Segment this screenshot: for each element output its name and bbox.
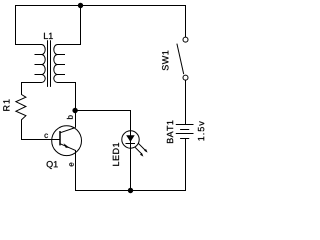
label c (44, 134, 47, 138)
LED1 body circle (122, 131, 139, 148)
switch SW1 lever (177, 44, 184, 75)
L1 right winding junction ticks (58, 55, 66, 75)
LED1 anode triangle (126, 135, 135, 142)
wire switch SW1 to battery top plate (185, 80, 187, 124)
wire node to LED1: horizontal then vertical through LED to bottom (76, 111, 131, 191)
battery BAT1 plate long top (176, 124, 194, 126)
label R1 (3, 99, 9, 110)
transistor Q1 emitter arrow (64, 143, 70, 148)
label Q1 (47, 161, 58, 169)
battery BAT1 plate short bottom (180, 138, 189, 140)
label SW1 (162, 51, 168, 71)
battery BAT1 plate long (176, 133, 194, 135)
label b (67, 115, 73, 119)
inductor L1 right winding, bottom lead, wire down to Q1 collector (54, 45, 76, 128)
L1 left winding junction ticks (35, 55, 42, 75)
transistor Q1 collector line (60, 128, 76, 133)
transistor Q1 body circle (52, 126, 82, 156)
LED1 light ray lower (135, 147, 143, 155)
LED1 light ray upper (138, 143, 146, 151)
wire top loop: L1 primary top lead, left vertical, top horizontal, switch top lead (16, 6, 186, 45)
label BAT1 (167, 121, 173, 144)
transformer core lines (48, 40, 51, 87)
transistor Q1 base bar (59, 131, 61, 145)
LED1 ray arrowhead upper (144, 149, 147, 153)
inductor L1 left winding with R1 chain: winding, bottom lead, resistor R1 zigzag, lead to Q1 base (16, 45, 60, 140)
wire from top node down to L1 secondary top lead (58, 6, 81, 45)
label e (69, 163, 73, 167)
label LED1 (113, 143, 119, 166)
LED1 cathode bar (126, 143, 136, 145)
switch SW1 contact circle bottom (183, 75, 188, 80)
junction node top (78, 3, 83, 8)
battery BAT1 plate short (180, 129, 189, 131)
switch SW1 contact circle top (183, 37, 188, 42)
label L1 (44, 33, 53, 39)
transistor Q1 emitter line, emitter wire, bottom wire, battery bottom lead (60, 139, 186, 191)
LED1 ray arrowhead lower (140, 153, 143, 157)
junction node at Q1 collector / LED (72, 108, 77, 113)
label 1.5v (198, 121, 204, 140)
junction node bottom LED (128, 188, 133, 193)
